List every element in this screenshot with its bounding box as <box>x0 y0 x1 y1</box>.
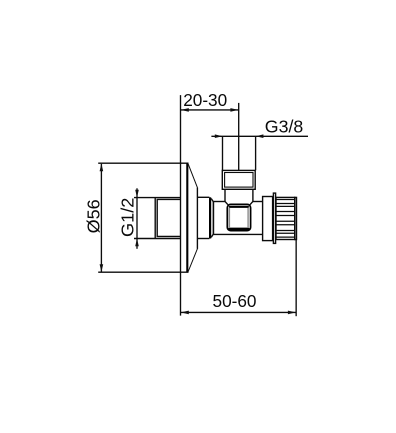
dimension G3/8 leader line <box>211 135 308 137</box>
escutcheon bottom slant <box>188 249 198 273</box>
flare slant left <box>225 201 228 204</box>
bonnet disc <box>263 197 273 241</box>
square spindle outer <box>227 204 250 230</box>
arrowhead G3/8 left <box>215 134 223 138</box>
compression nut outer <box>222 170 255 189</box>
handle end cap <box>295 197 297 239</box>
outlet tube below nut left <box>224 189 226 201</box>
valve body top edge right <box>253 201 263 203</box>
G1/2 inlet pipe top line <box>134 197 181 199</box>
handle knurled body <box>276 197 295 239</box>
square spindle ring side right <box>247 208 249 228</box>
G3/8 outlet pipe left edge <box>222 136 224 170</box>
arrowhead G1/2 bottom <box>135 239 139 247</box>
arrowhead 20-30 right <box>230 108 238 112</box>
outlet tube below nut right <box>252 189 254 201</box>
arrowhead G3/8 right <box>256 134 264 138</box>
G1/2 thread start line <box>154 198 156 239</box>
dimension 50-60 extension right <box>295 240 297 317</box>
arrowhead D56 top <box>100 164 104 172</box>
dimension G1/2 line <box>136 188 138 249</box>
valve body top edge left <box>214 201 226 203</box>
compression nut inner <box>225 173 253 188</box>
square spindle ring top bar <box>230 206 248 208</box>
square spindle ring bottom bar <box>230 228 248 231</box>
valve body left face <box>212 202 214 234</box>
G3/8 outlet pipe right edge <box>255 136 257 170</box>
chamfer bottom <box>211 234 213 237</box>
extension line pipe centerline <box>238 103 240 170</box>
escutcheon top slant <box>188 164 198 188</box>
wall line / extension line left <box>180 95 182 316</box>
svg-text:50-60: 50-60 <box>213 291 257 311</box>
knurl lines <box>276 200 295 238</box>
chamfer top <box>211 199 213 203</box>
arrowhead 50-60 right <box>288 311 296 315</box>
dimension D56 extension bottom <box>98 271 188 273</box>
arrowhead D56 bottom <box>100 264 104 272</box>
svg-text:G3/8: G3/8 <box>265 117 304 137</box>
flare slant right <box>250 201 253 204</box>
dimension D56 extension top <box>98 162 188 164</box>
dimension 50-60 line <box>181 311 297 313</box>
svg-text:Ø56: Ø56 <box>83 199 103 233</box>
G1/2 thread rect <box>157 199 180 236</box>
svg-text:20-30: 20-30 <box>183 90 227 110</box>
dimension 20-30 line <box>181 109 239 111</box>
handle back ring <box>273 193 275 243</box>
valve neck collar bottom <box>197 238 209 240</box>
valve neck collar thick edge <box>209 197 211 238</box>
valve body bottom edge <box>214 233 263 235</box>
square spindle ring side left <box>228 208 230 228</box>
arrowhead 50-60 left <box>181 311 189 315</box>
svg-text:G1/2: G1/2 <box>117 198 137 238</box>
escutcheon back face <box>186 163 188 272</box>
escutcheon front face <box>196 188 198 249</box>
valve neck collar top <box>197 196 209 198</box>
dimension D56 line <box>100 164 102 272</box>
G1/2 inlet pipe bottom line <box>134 238 181 240</box>
arrowhead 20-30 left <box>181 108 189 112</box>
arrowhead G1/2 top <box>135 190 139 198</box>
